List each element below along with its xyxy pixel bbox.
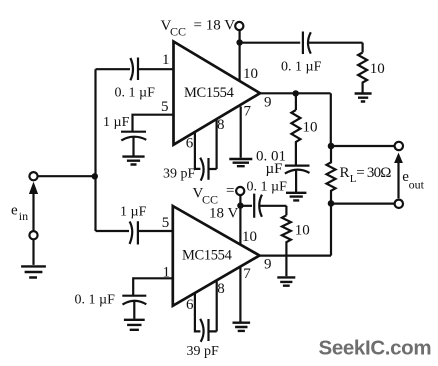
ground (U1 pin 7) bbox=[229, 159, 252, 166]
terminal output bottom bbox=[395, 200, 403, 208]
ground (U2 bypass) bbox=[277, 277, 295, 285]
svg-text:0. 1 µF: 0. 1 µF bbox=[247, 180, 288, 195]
svg-text:10: 10 bbox=[303, 120, 318, 136]
svg-text:9: 9 bbox=[264, 95, 272, 111]
capacitor 1uF (U1 pin 5 bypass) bbox=[121, 132, 146, 156]
op-amp U2 MC1554 (bottom) bbox=[173, 206, 260, 306]
wire cap to resistor (U2 bypass) bbox=[285, 206, 287, 216]
svg-text:39 pF: 39 pF bbox=[187, 344, 220, 359]
capacitor 39pF (U1) bbox=[200, 158, 216, 181]
svg-text:CC: CC bbox=[170, 25, 186, 39]
wire RL bottom down to U2 output bbox=[330, 204, 332, 256]
wire cap to resistor (top right) bbox=[362, 43, 364, 53]
wire junction down bbox=[295, 93, 297, 110]
wire pin 9 U1 output bbox=[260, 92, 331, 94]
capacitor 1uF (U2 pin 5 series) bbox=[130, 221, 173, 244]
wire trunk to 1uF cap (U2 pin5) bbox=[96, 230, 130, 232]
svg-text:e: e bbox=[11, 203, 18, 219]
capacitor 0.1uF (U2 pin 1 bypass) bbox=[122, 296, 146, 319]
svg-text:6: 6 bbox=[186, 136, 194, 152]
svg-text:10: 10 bbox=[370, 61, 385, 77]
svg-text:8: 8 bbox=[217, 117, 225, 133]
junction RL top bbox=[328, 143, 335, 150]
ground (U2 pin1 cap) bbox=[124, 320, 145, 330]
junction input bbox=[92, 173, 98, 179]
wire Vcc junction to bypass cap C1 bbox=[240, 42, 301, 44]
svg-text:out: out bbox=[409, 178, 425, 192]
capacitor 0.1uF (U2 bypass) bbox=[254, 194, 286, 218]
capacitor 39pF (U2) bbox=[200, 319, 217, 342]
wire Vcc2 junction to cap bbox=[240, 205, 252, 207]
terminal e_in top bbox=[29, 172, 37, 180]
wire input trunk vertical bbox=[94, 69, 96, 231]
resistor 10 (U2 bypass) bbox=[282, 215, 291, 276]
wire pin 7 U1 bbox=[240, 107, 242, 158]
resistor RL 30 ohm bbox=[327, 146, 336, 203]
svg-text:10: 10 bbox=[295, 223, 310, 239]
wire pin 6 U1 bbox=[195, 132, 201, 169]
svg-text:= 30Ω: = 30Ω bbox=[356, 165, 391, 181]
capacitor 0.1uF (top right bypass) bbox=[303, 32, 363, 55]
svg-text:= 18 V: = 18 V bbox=[194, 18, 236, 34]
op-amp U1 MC1554 (top) bbox=[174, 42, 261, 145]
svg-text:1 µF: 1 µF bbox=[120, 205, 147, 220]
svg-text:5: 5 bbox=[162, 215, 170, 231]
svg-text:SeekIC.com: SeekIC.com bbox=[319, 337, 432, 360]
wire Vcc2 terminal down to pin 10 of U2 bbox=[239, 195, 241, 244]
junction RL bottom bbox=[328, 200, 335, 207]
ground (U2 pin 7) bbox=[233, 323, 251, 331]
svg-text:R: R bbox=[340, 165, 350, 181]
svg-text:39 pF: 39 pF bbox=[163, 167, 196, 182]
wire pin9 corner down to RL top bbox=[330, 93, 332, 146]
wire Vcc terminal down to pin 10 of U1 bbox=[239, 30, 241, 81]
svg-text:1 µF: 1 µF bbox=[103, 115, 130, 130]
wire pin 7 U2 bbox=[239, 267, 241, 322]
wire RL bottom to output terminal bbox=[331, 203, 395, 205]
arrow e_in bbox=[32, 193, 34, 231]
svg-text:10: 10 bbox=[242, 229, 257, 245]
wire pin5 U1 bbox=[133, 115, 174, 132]
svg-text:=: = bbox=[226, 183, 234, 199]
svg-text:MC1554: MC1554 bbox=[184, 85, 235, 101]
ground (U1 pin5 cap) bbox=[122, 157, 144, 165]
node Vcc label (top) bbox=[161, 18, 236, 39]
svg-text:5: 5 bbox=[161, 99, 169, 115]
wire input horizontal bbox=[38, 175, 96, 177]
wire pin1 U2 bbox=[133, 278, 173, 295]
junction Vcc bottom bbox=[237, 202, 243, 208]
terminal Vcc top (open circle) bbox=[235, 22, 243, 30]
wire pin 8 U1 bbox=[216, 119, 218, 169]
node Vcc label (bottom) bbox=[193, 183, 239, 221]
ground (top right) bbox=[355, 94, 372, 102]
terminal e_in bottom bbox=[29, 231, 37, 239]
svg-text:18 V: 18 V bbox=[209, 206, 238, 222]
wire pin 8 U2 bbox=[216, 282, 218, 332]
svg-text:in: in bbox=[19, 209, 28, 223]
ground (0.01uF) bbox=[286, 193, 306, 201]
terminal Vcc bottom (open circle) bbox=[236, 187, 244, 195]
resistor 10 (U1 snubber) bbox=[291, 110, 300, 165]
arrow e_out bbox=[397, 163, 399, 199]
wire pin 6 U2 bbox=[195, 293, 201, 332]
svg-text:µF: µF bbox=[266, 161, 283, 177]
svg-text:0. 1 µF: 0. 1 µF bbox=[281, 60, 322, 75]
svg-text:MC1554: MC1554 bbox=[182, 248, 233, 264]
junction pin9 U1 bbox=[293, 90, 299, 96]
svg-text:0. 1 µF: 0. 1 µF bbox=[75, 293, 116, 308]
ground (e_in) bbox=[21, 266, 46, 277]
wire RL top to output terminal bbox=[331, 145, 395, 147]
svg-text:0. 1 µF: 0. 1 µF bbox=[115, 86, 156, 101]
terminal output top bbox=[395, 142, 403, 150]
resistor 10 (top right) bbox=[358, 53, 367, 93]
wire pin 9 U2 output bbox=[260, 255, 332, 257]
capacitor 0.01uF (U1 snubber) bbox=[285, 166, 310, 193]
svg-text:1: 1 bbox=[162, 52, 170, 68]
capacitor 0.1uF (U1 pin 1 series) bbox=[130, 58, 173, 81]
svg-text:8: 8 bbox=[217, 281, 225, 297]
svg-text:CC: CC bbox=[202, 193, 218, 207]
wire pin1 U1 left segment bbox=[96, 68, 131, 70]
wire e_in bottom to ground bbox=[32, 239, 34, 265]
svg-text:6: 6 bbox=[186, 297, 194, 313]
svg-text:7: 7 bbox=[244, 104, 252, 120]
junction Vcc top bbox=[236, 39, 242, 45]
svg-text:7: 7 bbox=[243, 266, 251, 282]
svg-text:10: 10 bbox=[243, 66, 258, 82]
svg-text:9: 9 bbox=[264, 257, 272, 273]
